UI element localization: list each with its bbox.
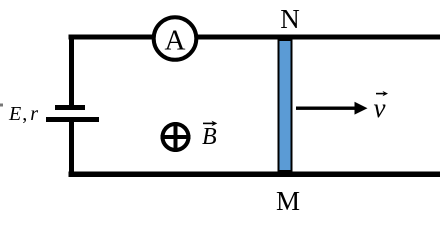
wire left vertical (battery to bottom rail) — [69, 122, 74, 177]
stray edge mark — [0, 104, 3, 107]
label vector v — [374, 91, 389, 123]
svg-text:B: B — [202, 124, 217, 150]
svg-text:N: N — [280, 4, 300, 34]
label vector B — [202, 121, 217, 150]
node M label — [276, 186, 300, 216]
velocity arrow — [296, 102, 368, 115]
svg-text:A: A — [165, 25, 186, 57]
svg-text:E,r: E,r — [8, 103, 38, 125]
svg-text:v: v — [374, 93, 386, 123]
ammeter A — [154, 17, 197, 60]
wire bottom rail — [69, 172, 441, 178]
wire top rail — [69, 35, 441, 40]
battery E (top short plate) — [55, 105, 85, 110]
battery E (bottom long plate) — [46, 117, 99, 122]
magnetic field symbol (circle-plus, B into page) — [161, 122, 191, 152]
node N label — [280, 4, 300, 34]
wire left vertical (top rail to battery) — [69, 35, 74, 106]
label E,r (emf and internal resistance) — [8, 103, 38, 125]
conducting rod MN (blue slider) — [279, 40, 292, 171]
svg-text:M: M — [276, 186, 300, 216]
